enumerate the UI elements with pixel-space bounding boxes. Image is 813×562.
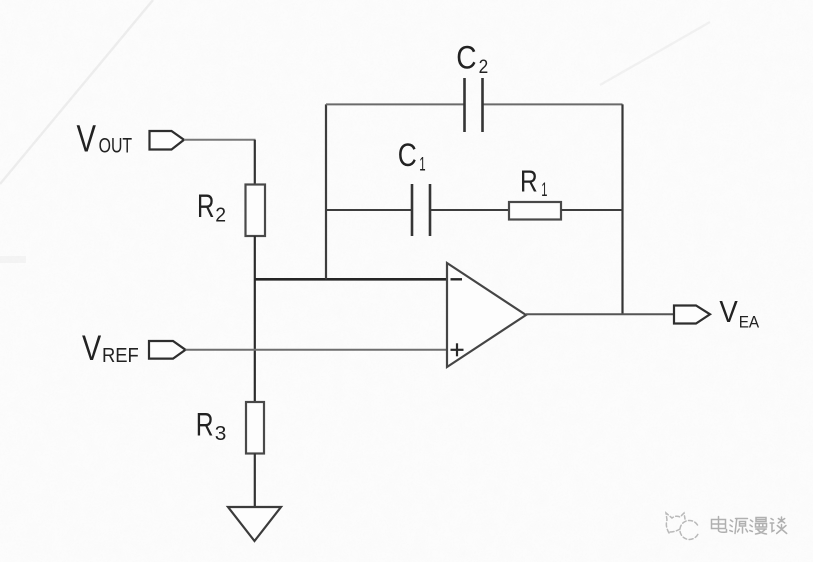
- op-amp plus pin: [451, 343, 464, 356]
- label VOUT: [77, 119, 133, 161]
- svg-text:1: 1: [541, 180, 547, 201]
- input tag VREF: [149, 341, 186, 359]
- svg-text:C: C: [456, 40, 476, 76]
- wire loop top left segment: [326, 103, 465, 105]
- op-amp minus pin: [451, 278, 463, 280]
- svg-text:REF: REF: [102, 345, 139, 367]
- wire R3 to ground: [254, 454, 256, 508]
- svg-text:EA: EA: [739, 313, 760, 332]
- capacitor C2: [465, 78, 483, 132]
- label VEA: [719, 295, 759, 332]
- wire loop right edge: [621, 104, 623, 314]
- wire VREF to op-amp noninverting input: [186, 349, 448, 351]
- char 电: [712, 517, 727, 533]
- resistor R3: [246, 402, 264, 454]
- svg-text:3: 3: [215, 423, 227, 445]
- capacitor C1: [412, 184, 430, 236]
- wire VOUT tag to corner: [184, 139, 256, 141]
- char 源: [730, 519, 748, 534]
- wire feedback loop left edge: [325, 104, 327, 279]
- svg-text:1: 1: [419, 154, 425, 175]
- svg-text:2: 2: [479, 57, 489, 78]
- label VREF: [82, 329, 139, 368]
- label R3: [196, 407, 227, 445]
- char 谈: [770, 517, 787, 534]
- svg-text:2: 2: [215, 204, 226, 226]
- svg-text:V: V: [82, 329, 102, 368]
- label C1: [398, 137, 426, 176]
- svg-text:R: R: [196, 407, 214, 443]
- ground: [228, 507, 281, 541]
- svg-text:R: R: [197, 188, 215, 224]
- op-amp: [447, 263, 526, 367]
- wire mid loop left of C1: [326, 209, 411, 211]
- svg-text:C: C: [398, 137, 417, 173]
- wire loop top right segment: [483, 103, 623, 105]
- svg-text:V: V: [77, 119, 97, 161]
- output tag VEA: [674, 306, 710, 324]
- label R2: [197, 188, 226, 226]
- svg-text:OUT: OUT: [99, 135, 133, 158]
- char 漫: [750, 518, 767, 535]
- wire op-amp output: [526, 313, 674, 315]
- wire inverting input from node to op-amp: [255, 278, 447, 281]
- label C2: [456, 40, 488, 78]
- label R1: [520, 163, 547, 201]
- svg-text:V: V: [719, 295, 738, 329]
- watermark icon cat: [666, 513, 698, 539]
- wire R1 to loop right edge: [561, 209, 623, 211]
- resistor R2: [246, 185, 266, 237]
- input tag VOUT: [150, 131, 185, 150]
- svg-text:R: R: [520, 163, 538, 198]
- watermark text 电源漫谈 drawn as strokes: [712, 517, 787, 535]
- resistor R1: [509, 202, 561, 220]
- wire C1 to R1: [431, 209, 509, 211]
- wire corner down to R2: [254, 140, 256, 185]
- wire R2 bottom through junctions to R3: [254, 236, 256, 402]
